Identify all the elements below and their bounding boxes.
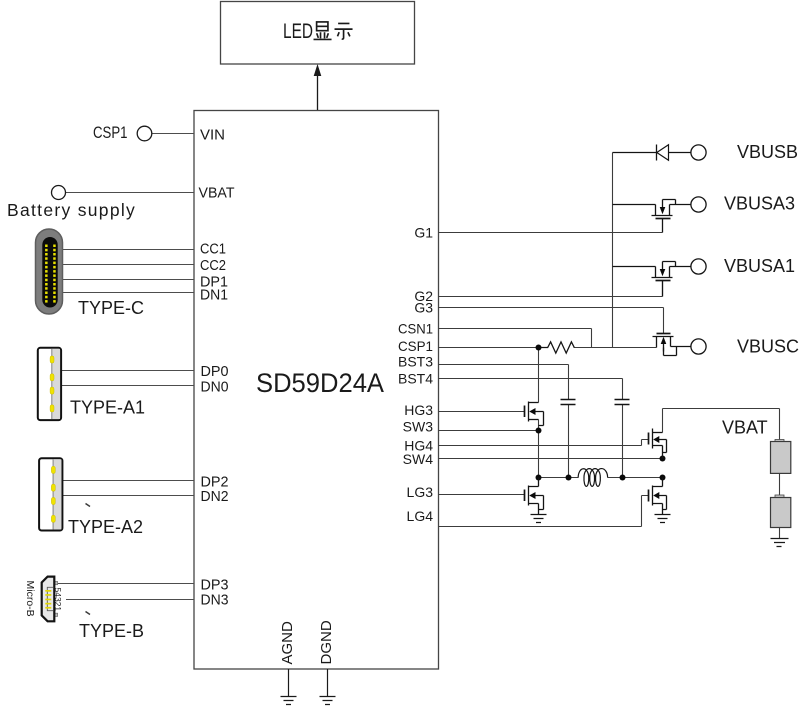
svg-text:G3: G3 bbox=[414, 299, 433, 315]
svg-text:BST4: BST4 bbox=[398, 371, 433, 387]
svg-text:DN0: DN0 bbox=[201, 378, 229, 395]
svg-text:LG3: LG3 bbox=[407, 484, 434, 500]
svg-text:BST3: BST3 bbox=[398, 354, 433, 370]
svg-text:CSP1: CSP1 bbox=[398, 338, 433, 354]
svg-text:VBAT: VBAT bbox=[722, 418, 768, 438]
svg-text:VBUSA3: VBUSA3 bbox=[724, 194, 795, 214]
svg-text:VIN: VIN bbox=[200, 126, 225, 143]
svg-text:Micro-B: Micro-B bbox=[24, 581, 36, 617]
svg-text:TYPE-A2: TYPE-A2 bbox=[68, 517, 143, 537]
svg-text:DN3: DN3 bbox=[201, 591, 229, 608]
svg-text:VBUSC: VBUSC bbox=[737, 337, 799, 357]
svg-text:CC2: CC2 bbox=[200, 257, 226, 274]
svg-text:DP0: DP0 bbox=[201, 363, 229, 380]
svg-text:SD59D24A: SD59D24A bbox=[256, 368, 384, 398]
svg-text:LED: LED bbox=[283, 20, 313, 43]
svg-text:TYPE-B: TYPE-B bbox=[79, 621, 144, 641]
svg-text:CC1: CC1 bbox=[200, 241, 226, 258]
svg-text:HG3: HG3 bbox=[404, 402, 433, 418]
svg-text:CSN1: CSN1 bbox=[398, 321, 433, 337]
svg-text:G1: G1 bbox=[414, 225, 433, 241]
svg-text:DN2: DN2 bbox=[201, 488, 229, 505]
svg-text:Battery supply: Battery supply bbox=[7, 200, 136, 220]
svg-text:AGND: AGND bbox=[279, 621, 296, 665]
svg-text:54321: 54321 bbox=[53, 588, 63, 612]
svg-text:DN1: DN1 bbox=[200, 287, 228, 304]
svg-text:TYPE-C: TYPE-C bbox=[78, 298, 144, 318]
svg-text:LG4: LG4 bbox=[407, 508, 434, 524]
svg-text:SW3: SW3 bbox=[403, 419, 434, 435]
svg-text:TYPE-A1: TYPE-A1 bbox=[70, 398, 145, 418]
svg-text:VBUSB: VBUSB bbox=[737, 142, 798, 162]
svg-text:CSP1: CSP1 bbox=[93, 123, 128, 142]
svg-text:VBAT: VBAT bbox=[199, 184, 235, 201]
svg-text:VBUSA1: VBUSA1 bbox=[724, 256, 795, 276]
svg-text:SW4: SW4 bbox=[403, 451, 434, 467]
svg-text:DGND: DGND bbox=[318, 620, 335, 664]
